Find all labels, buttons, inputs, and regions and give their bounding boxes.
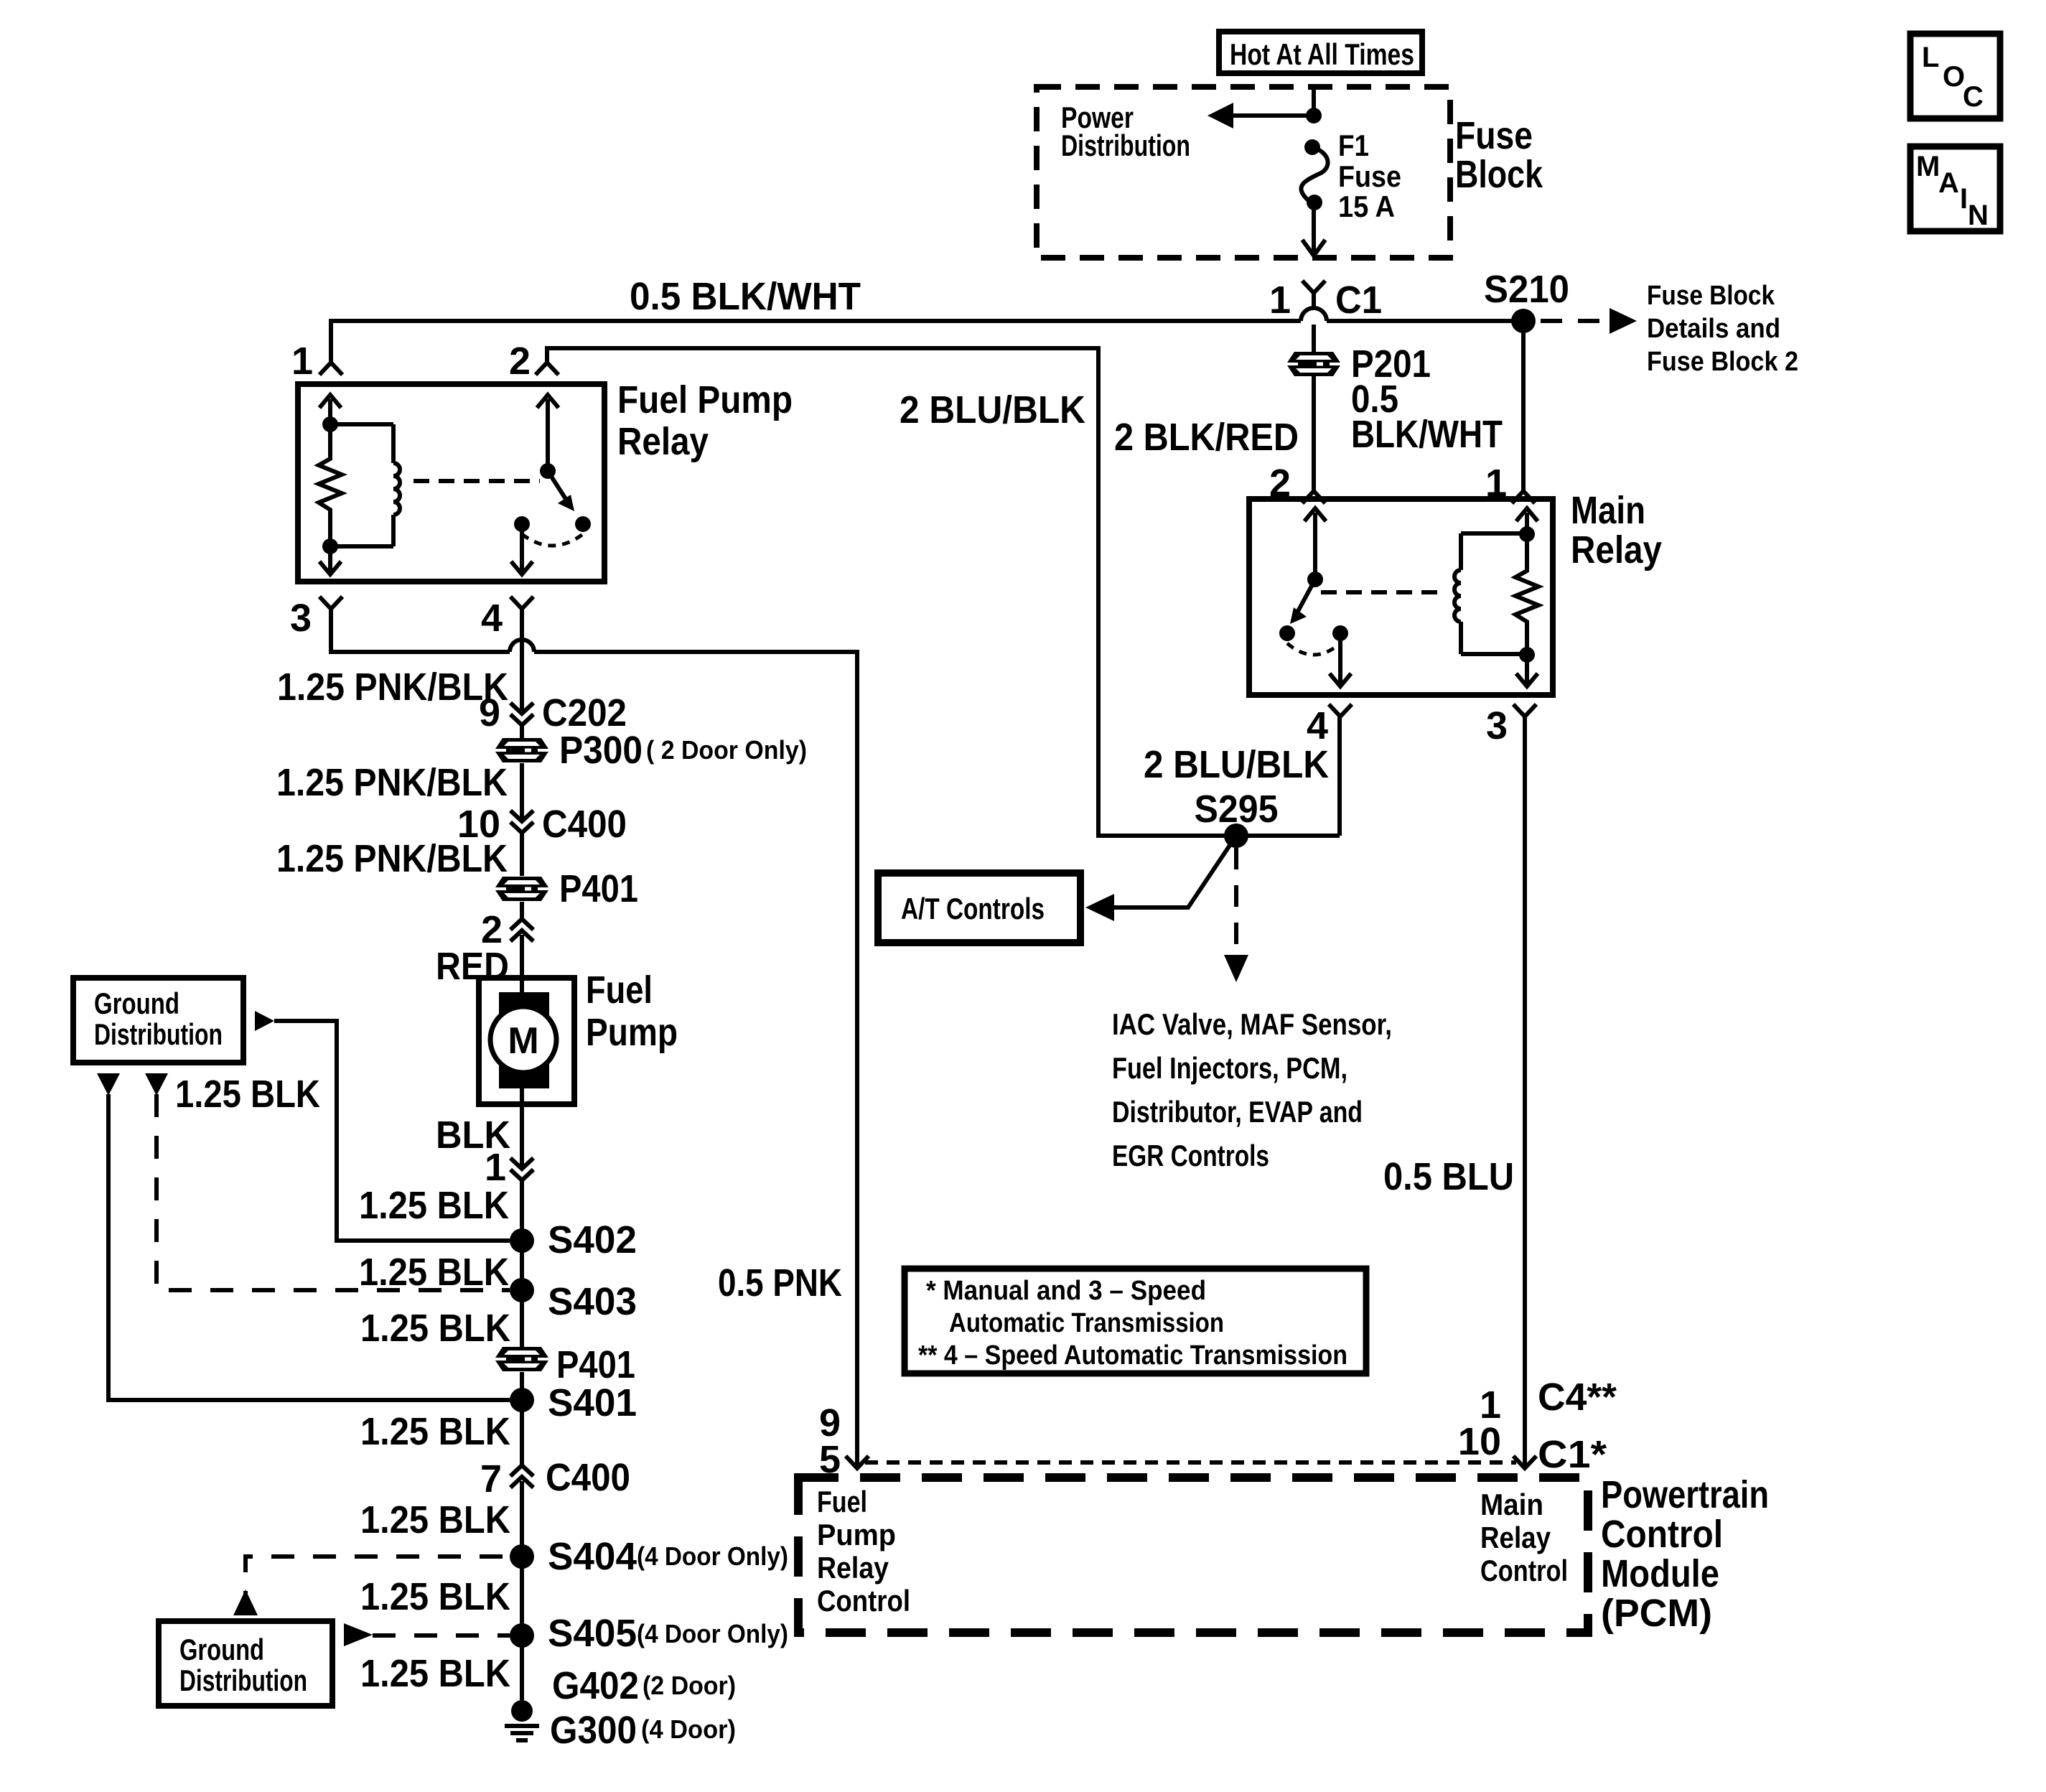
svg-text:2: 2 xyxy=(509,340,531,383)
wire S405 to ground (1.25 BLK) xyxy=(520,1635,524,1700)
label P300 (2 Door Only) xyxy=(559,729,807,772)
label Fuel Pump Relay xyxy=(617,378,793,463)
svg-text:1.25 BLK: 1.25 BLK xyxy=(359,1251,509,1294)
svg-text:1.25 BLK: 1.25 BLK xyxy=(360,1575,510,1618)
wire P201 to main relay pin 2 xyxy=(1312,376,1316,491)
label F1 Fuse 15 A xyxy=(1338,129,1401,223)
wire FPR pin3 to PCM (0.5 PNK) with hop xyxy=(331,609,510,652)
PCM connector boundary (thin dashed) xyxy=(865,1460,1516,1465)
FPR pin1 internal lead xyxy=(319,395,341,424)
node S404 xyxy=(510,1544,534,1569)
svg-text:1.25 BLK: 1.25 BLK xyxy=(360,1307,510,1350)
label 1 / 10 (PCM pins) xyxy=(1458,1383,1501,1463)
wire S210 to main relay pin 1 xyxy=(1521,333,1526,491)
svg-text:S404: S404 xyxy=(548,1535,637,1578)
svg-text:Main: Main xyxy=(1571,489,1645,532)
FPR actuation dashed link xyxy=(414,479,540,483)
wire Ground Distribution to S402 xyxy=(274,1021,510,1241)
label C4** / C1* xyxy=(1538,1376,1617,1476)
svg-text:C1*: C1* xyxy=(1538,1433,1607,1476)
node S295 xyxy=(1224,823,1248,848)
svg-text:Automatic Transmission: Automatic Transmission xyxy=(949,1308,1224,1338)
svg-text:Distribution: Distribution xyxy=(179,1663,307,1697)
MAIN page tab box xyxy=(1910,146,2000,231)
svg-text:M: M xyxy=(1916,151,1940,182)
relay box Main Relay xyxy=(1249,499,1553,695)
svg-text:Relay: Relay xyxy=(1571,528,1662,571)
wire S295 to A/T controls arrow xyxy=(1114,836,1236,907)
wire C400 to S404 (1.25 BLK) xyxy=(520,1498,524,1557)
label Fuse Block Details and Fuse Block 2 xyxy=(1647,281,1798,377)
main relay actuation dashed link xyxy=(1321,590,1444,594)
node S402 xyxy=(510,1228,534,1253)
label G402 (2 Door) xyxy=(552,1664,736,1707)
fuel pump relay pin 2 chevron xyxy=(536,363,559,375)
label Powertrain Control Module (PCM) xyxy=(1601,1473,1769,1635)
wire S402 to S403 (1.25 BLK) xyxy=(520,1241,524,1290)
FPR pin4 internal lead xyxy=(511,524,533,574)
svg-text:(PCM): (PCM) xyxy=(1601,1592,1712,1635)
wire S403 to P401 (1.25 BLK) xyxy=(520,1290,524,1359)
svg-text:O: O xyxy=(1943,61,1965,93)
note box transmissions xyxy=(905,1269,1366,1373)
node: power distribution tap xyxy=(1306,108,1322,123)
FPR switch arm xyxy=(548,471,574,511)
label Fuel Pump Relay Control xyxy=(817,1485,910,1618)
svg-text:I: I xyxy=(1960,183,1968,215)
PCM pin chevron 9/5 xyxy=(846,1456,869,1468)
svg-text:Fuse: Fuse xyxy=(1455,114,1533,157)
svg-text:Relay: Relay xyxy=(617,420,709,463)
wire FPR pin4 down (1.25 PNK/BLK) xyxy=(520,609,524,701)
svg-text:10: 10 xyxy=(1458,1420,1501,1463)
svg-text:F1: F1 xyxy=(1338,129,1369,162)
wire S401 ground run xyxy=(108,1094,510,1400)
Hot At All Times banner xyxy=(1219,32,1422,73)
wire P401 to S401 xyxy=(520,1372,524,1400)
svg-text:RED: RED xyxy=(436,945,509,988)
label P201 0.5 BLK/WHT xyxy=(1351,342,1503,456)
C1 hop bump over 0.5 BLK/WHT wire xyxy=(1301,308,1327,321)
box Ground Distribution (upper) xyxy=(73,978,243,1063)
ground lead arrow (solid) xyxy=(97,1073,120,1096)
svg-text:IAC Valve, MAF Sensor,: IAC Valve, MAF Sensor, xyxy=(1112,1007,1392,1041)
box A/T Controls xyxy=(878,873,1080,943)
fuel pump relay pin 1 chevron xyxy=(319,363,342,375)
main relay coil xyxy=(1454,533,1527,654)
svg-text:S403: S403 xyxy=(548,1280,637,1323)
svg-text:Pump: Pump xyxy=(817,1518,896,1551)
fuse block dashed box xyxy=(1037,87,1450,258)
svg-text:G402: G402 xyxy=(552,1664,639,1707)
FPR resistor xyxy=(319,424,342,546)
svg-text:Fuse Block 2: Fuse Block 2 xyxy=(1647,347,1798,377)
label G300 (4 Door) xyxy=(550,1709,736,1752)
label 9 / 5 (PCM pins) xyxy=(819,1401,841,1481)
FPR coil junction dots xyxy=(322,416,338,432)
label Main Relay xyxy=(1571,489,1662,571)
svg-text:N: N xyxy=(1968,200,1989,231)
LOC page tab box xyxy=(1910,34,2000,118)
label Fuse Block xyxy=(1455,114,1543,196)
main relay pin4 internal lead xyxy=(1330,633,1351,686)
label IAC Valve MAF Sensor list xyxy=(1112,1007,1392,1172)
svg-text:0.5 BLK/WHT: 0.5 BLK/WHT xyxy=(630,275,861,318)
main relay pin2 internal lead xyxy=(1304,508,1326,579)
svg-text:Module: Module xyxy=(1601,1552,1719,1595)
label 10 C400 xyxy=(457,803,627,846)
svg-text:3: 3 xyxy=(290,597,312,640)
label Power Distribution xyxy=(1061,101,1190,162)
svg-text:2 BLU/BLK: 2 BLU/BLK xyxy=(900,388,1085,431)
wire fuel pump relay pin2 run (2 BLU/BLK) xyxy=(547,348,1340,836)
svg-text:Relay: Relay xyxy=(817,1551,889,1585)
connector C400 pin 7 chevrons xyxy=(510,1465,533,1488)
svg-text:Hot At All Times: Hot At All Times xyxy=(1230,37,1414,71)
main relay pin 2 chevron xyxy=(1302,491,1325,503)
svg-text:4: 4 xyxy=(481,597,503,640)
main relay switch arm xyxy=(1290,579,1315,624)
FPR pin 3 chevron xyxy=(319,597,342,609)
dashed wire to S404 xyxy=(246,1557,510,1614)
svg-text:Control: Control xyxy=(1480,1554,1568,1587)
svg-text:0.5 PNK: 0.5 PNK xyxy=(718,1261,842,1305)
ground lead arrow (dashed branch) xyxy=(145,1073,168,1096)
svg-text:0.5 BLU: 0.5 BLU xyxy=(1383,1155,1514,1198)
wire 0.5 BLK/WHT horizontal run xyxy=(331,321,1301,363)
svg-text:C400: C400 xyxy=(546,1456,630,1499)
FPR switch pivot xyxy=(540,463,556,479)
FPR coil xyxy=(330,424,400,546)
ground G300 xyxy=(505,1700,539,1740)
arrow right from Ground Distribution (lower) xyxy=(344,1623,373,1646)
svg-text:M: M xyxy=(508,1020,538,1062)
svg-text:P401: P401 xyxy=(556,1343,635,1386)
label Fuel Pump xyxy=(586,969,678,1054)
svg-text:Relay: Relay xyxy=(1480,1521,1551,1554)
svg-text:Control: Control xyxy=(817,1584,910,1618)
connector P401 (lower) xyxy=(495,1347,548,1371)
svg-text:Block: Block xyxy=(1455,153,1543,196)
node S210 xyxy=(1511,309,1536,333)
wire main relay pin 4 down to S295 bus xyxy=(1337,717,1342,836)
svg-text:9: 9 xyxy=(479,691,500,734)
svg-text:(4 Door Only): (4 Door Only) xyxy=(637,1541,788,1571)
wire to power distribution arrow xyxy=(1233,113,1314,118)
svg-text:EGR Controls: EGR Controls xyxy=(1112,1139,1269,1172)
svg-text:S405: S405 xyxy=(548,1612,637,1655)
fuel pump motor xyxy=(479,978,574,1106)
svg-text:( 2 Door Only): ( 2 Door Only) xyxy=(646,735,807,765)
svg-text:Distributor, EVAP and: Distributor, EVAP and xyxy=(1112,1095,1363,1129)
main relay pin 4 chevron xyxy=(1329,704,1352,717)
svg-text:1: 1 xyxy=(1269,279,1291,322)
main relay switch pivot xyxy=(1307,571,1323,587)
svg-text:1.25 BLK: 1.25 BLK xyxy=(360,1652,510,1695)
svg-text:1.25 BLK: 1.25 BLK xyxy=(175,1073,320,1116)
connector P201 xyxy=(1287,352,1340,376)
wire S401 to C400 (1.25 BLK) xyxy=(520,1400,524,1466)
arrow to A/T Controls xyxy=(1085,894,1114,921)
svg-text:A: A xyxy=(1938,167,1959,199)
arrow up from Ground Distribution (lower) xyxy=(233,1590,258,1615)
svg-text:BLK/WHT: BLK/WHT xyxy=(1351,413,1503,456)
svg-text:Main: Main xyxy=(1480,1488,1543,1521)
svg-text:* Manual and 3 – Speed: * Manual and 3 – Speed xyxy=(926,1276,1206,1306)
main relay switch travel arc (dashed) xyxy=(1287,643,1340,655)
svg-text:G300: G300 xyxy=(550,1709,637,1752)
svg-text:1.25 BLK: 1.25 BLK xyxy=(360,1410,510,1453)
svg-text:2 BLU/BLK: 2 BLU/BLK xyxy=(1144,743,1329,786)
svg-text:(4 Door): (4 Door) xyxy=(641,1714,736,1744)
svg-text:4: 4 xyxy=(1307,704,1328,747)
wire P300 to C400 (1.25 PNK/BLK) xyxy=(520,763,524,810)
svg-text:Fuse Block: Fuse Block xyxy=(1647,281,1775,311)
svg-text:L: L xyxy=(1922,42,1939,73)
wire main relay pin 3 to PCM (0.5 BLU) xyxy=(1523,717,1527,1467)
node S401 xyxy=(510,1388,534,1412)
connector C400 pin 10 chevrons xyxy=(510,810,533,876)
svg-text:Fuel: Fuel xyxy=(817,1485,867,1518)
svg-text:C202: C202 xyxy=(542,691,627,734)
dashed wire to S403 xyxy=(157,1094,510,1290)
wire fuse output with down arrow xyxy=(1302,202,1325,256)
dashed reference arrow to Fuse Block 2 xyxy=(1541,308,1637,334)
main relay resistor xyxy=(1515,534,1538,655)
svg-text:1.25 BLK: 1.25 BLK xyxy=(359,1184,509,1227)
dashed wire S295 down to loads xyxy=(1224,848,1248,982)
svg-text:C4**: C4** xyxy=(1538,1376,1617,1419)
relay box Fuel Pump Relay xyxy=(298,384,604,582)
connector C202 pin 9 chevrons xyxy=(510,701,533,738)
svg-text:Fuel Pump: Fuel Pump xyxy=(617,378,793,421)
PCM pin chevron C4/C1 xyxy=(1513,1456,1536,1468)
svg-text:Fuel: Fuel xyxy=(586,969,653,1012)
svg-text:(4 Door Only): (4 Door Only) xyxy=(637,1619,788,1648)
fuel pump pin 1 chevrons xyxy=(510,1158,533,1180)
label 7 C400 xyxy=(480,1456,630,1501)
label S405 (4 Door Only) xyxy=(548,1612,788,1655)
svg-text:Ground: Ground xyxy=(179,1633,264,1666)
svg-text:P401: P401 xyxy=(559,867,638,910)
main relay switch contacts xyxy=(1279,625,1295,641)
wire S404 to S405 (1.25 BLK) xyxy=(520,1557,524,1635)
FPR switch contacts xyxy=(514,516,530,532)
svg-text:Details and: Details and xyxy=(1647,314,1780,344)
svg-text:Distribution: Distribution xyxy=(94,1017,223,1051)
node S405 xyxy=(510,1623,534,1648)
arrow to Power Distribution xyxy=(1207,103,1233,129)
svg-text:Ground: Ground xyxy=(94,986,179,1020)
FPR pin2 internal lead xyxy=(537,395,559,471)
svg-text:Fuel Injectors, PCM,: Fuel Injectors, PCM, xyxy=(1112,1051,1347,1085)
svg-text:Powertrain: Powertrain xyxy=(1601,1473,1769,1516)
dashed wire to S405 xyxy=(373,1633,510,1638)
fuel pump pin 2 chevrons xyxy=(510,902,533,978)
wire from hot feed into fuse block xyxy=(1312,84,1316,116)
svg-text:** 4 – Speed Automatic Transmi: ** 4 – Speed Automatic Transmission xyxy=(918,1340,1347,1371)
FPR switch travel arc (dashed) xyxy=(522,534,583,546)
fuse F1 15A xyxy=(1301,139,1327,210)
svg-text:S401: S401 xyxy=(548,1381,637,1424)
connector P300 xyxy=(495,738,548,762)
svg-text:1: 1 xyxy=(485,1146,506,1189)
main relay pin1 internal lead xyxy=(1516,508,1538,534)
svg-text:Control: Control xyxy=(1601,1513,1723,1556)
svg-text:1.25 PNK/BLK: 1.25 PNK/BLK xyxy=(276,761,508,804)
svg-text:S210: S210 xyxy=(1484,268,1569,311)
FPR pin3 internal lead xyxy=(319,546,341,574)
main relay pin 3 chevron xyxy=(1513,704,1536,717)
svg-text:1: 1 xyxy=(291,340,313,383)
svg-text:Fuse: Fuse xyxy=(1338,159,1401,193)
svg-text:Distribution: Distribution xyxy=(1061,129,1190,162)
wire pump to pin1 (BLK) xyxy=(520,1104,524,1169)
box Powertrain Control Module (dashed) xyxy=(798,1478,1588,1633)
wire C1 to P201 xyxy=(1312,325,1316,352)
main relay pin3 internal lead xyxy=(1516,655,1538,686)
node S403 xyxy=(510,1278,534,1302)
svg-text:C400: C400 xyxy=(542,803,627,846)
svg-text:P300: P300 xyxy=(559,729,643,772)
label Main Relay Control xyxy=(1480,1488,1568,1587)
arrow from Ground Distribution (upper) xyxy=(255,1011,274,1031)
svg-text:C: C xyxy=(1963,81,1984,113)
svg-text:C1: C1 xyxy=(1335,279,1382,322)
svg-text:7: 7 xyxy=(480,1457,502,1501)
main relay coil junction dots xyxy=(1519,526,1535,542)
svg-text:1.25 BLK: 1.25 BLK xyxy=(360,1498,510,1541)
svg-text:1.25 PNK/BLK: 1.25 PNK/BLK xyxy=(277,666,508,709)
box Ground Distribution (lower) xyxy=(159,1621,332,1706)
svg-text:15 A: 15 A xyxy=(1338,190,1395,223)
label 9 C202 xyxy=(479,691,627,734)
connector C1 pin 1 chevron xyxy=(1302,281,1325,309)
svg-text:A/T Controls: A/T Controls xyxy=(901,892,1045,925)
label S404 (4 Door Only) xyxy=(548,1535,788,1578)
main relay pin 1 chevron xyxy=(1512,491,1535,503)
connector P401 xyxy=(495,877,548,901)
FPR pin 4 chevron xyxy=(510,597,533,609)
svg-text:(2 Door): (2 Door) xyxy=(643,1671,736,1700)
svg-text:3: 3 xyxy=(1486,704,1508,747)
svg-text:2 BLK/RED: 2 BLK/RED xyxy=(1114,416,1299,459)
svg-text:1.25 PNK/BLK: 1.25 PNK/BLK xyxy=(276,837,508,880)
svg-text:Pump: Pump xyxy=(586,1011,678,1054)
svg-text:S402: S402 xyxy=(548,1218,637,1261)
